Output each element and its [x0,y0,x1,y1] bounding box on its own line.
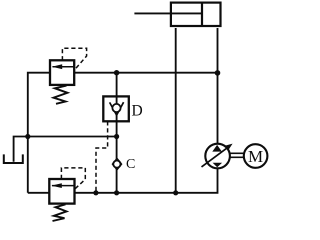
svg-text:D: D [132,103,143,120]
svg-text:M: M [248,147,263,166]
svg-text:C: C [126,157,135,172]
